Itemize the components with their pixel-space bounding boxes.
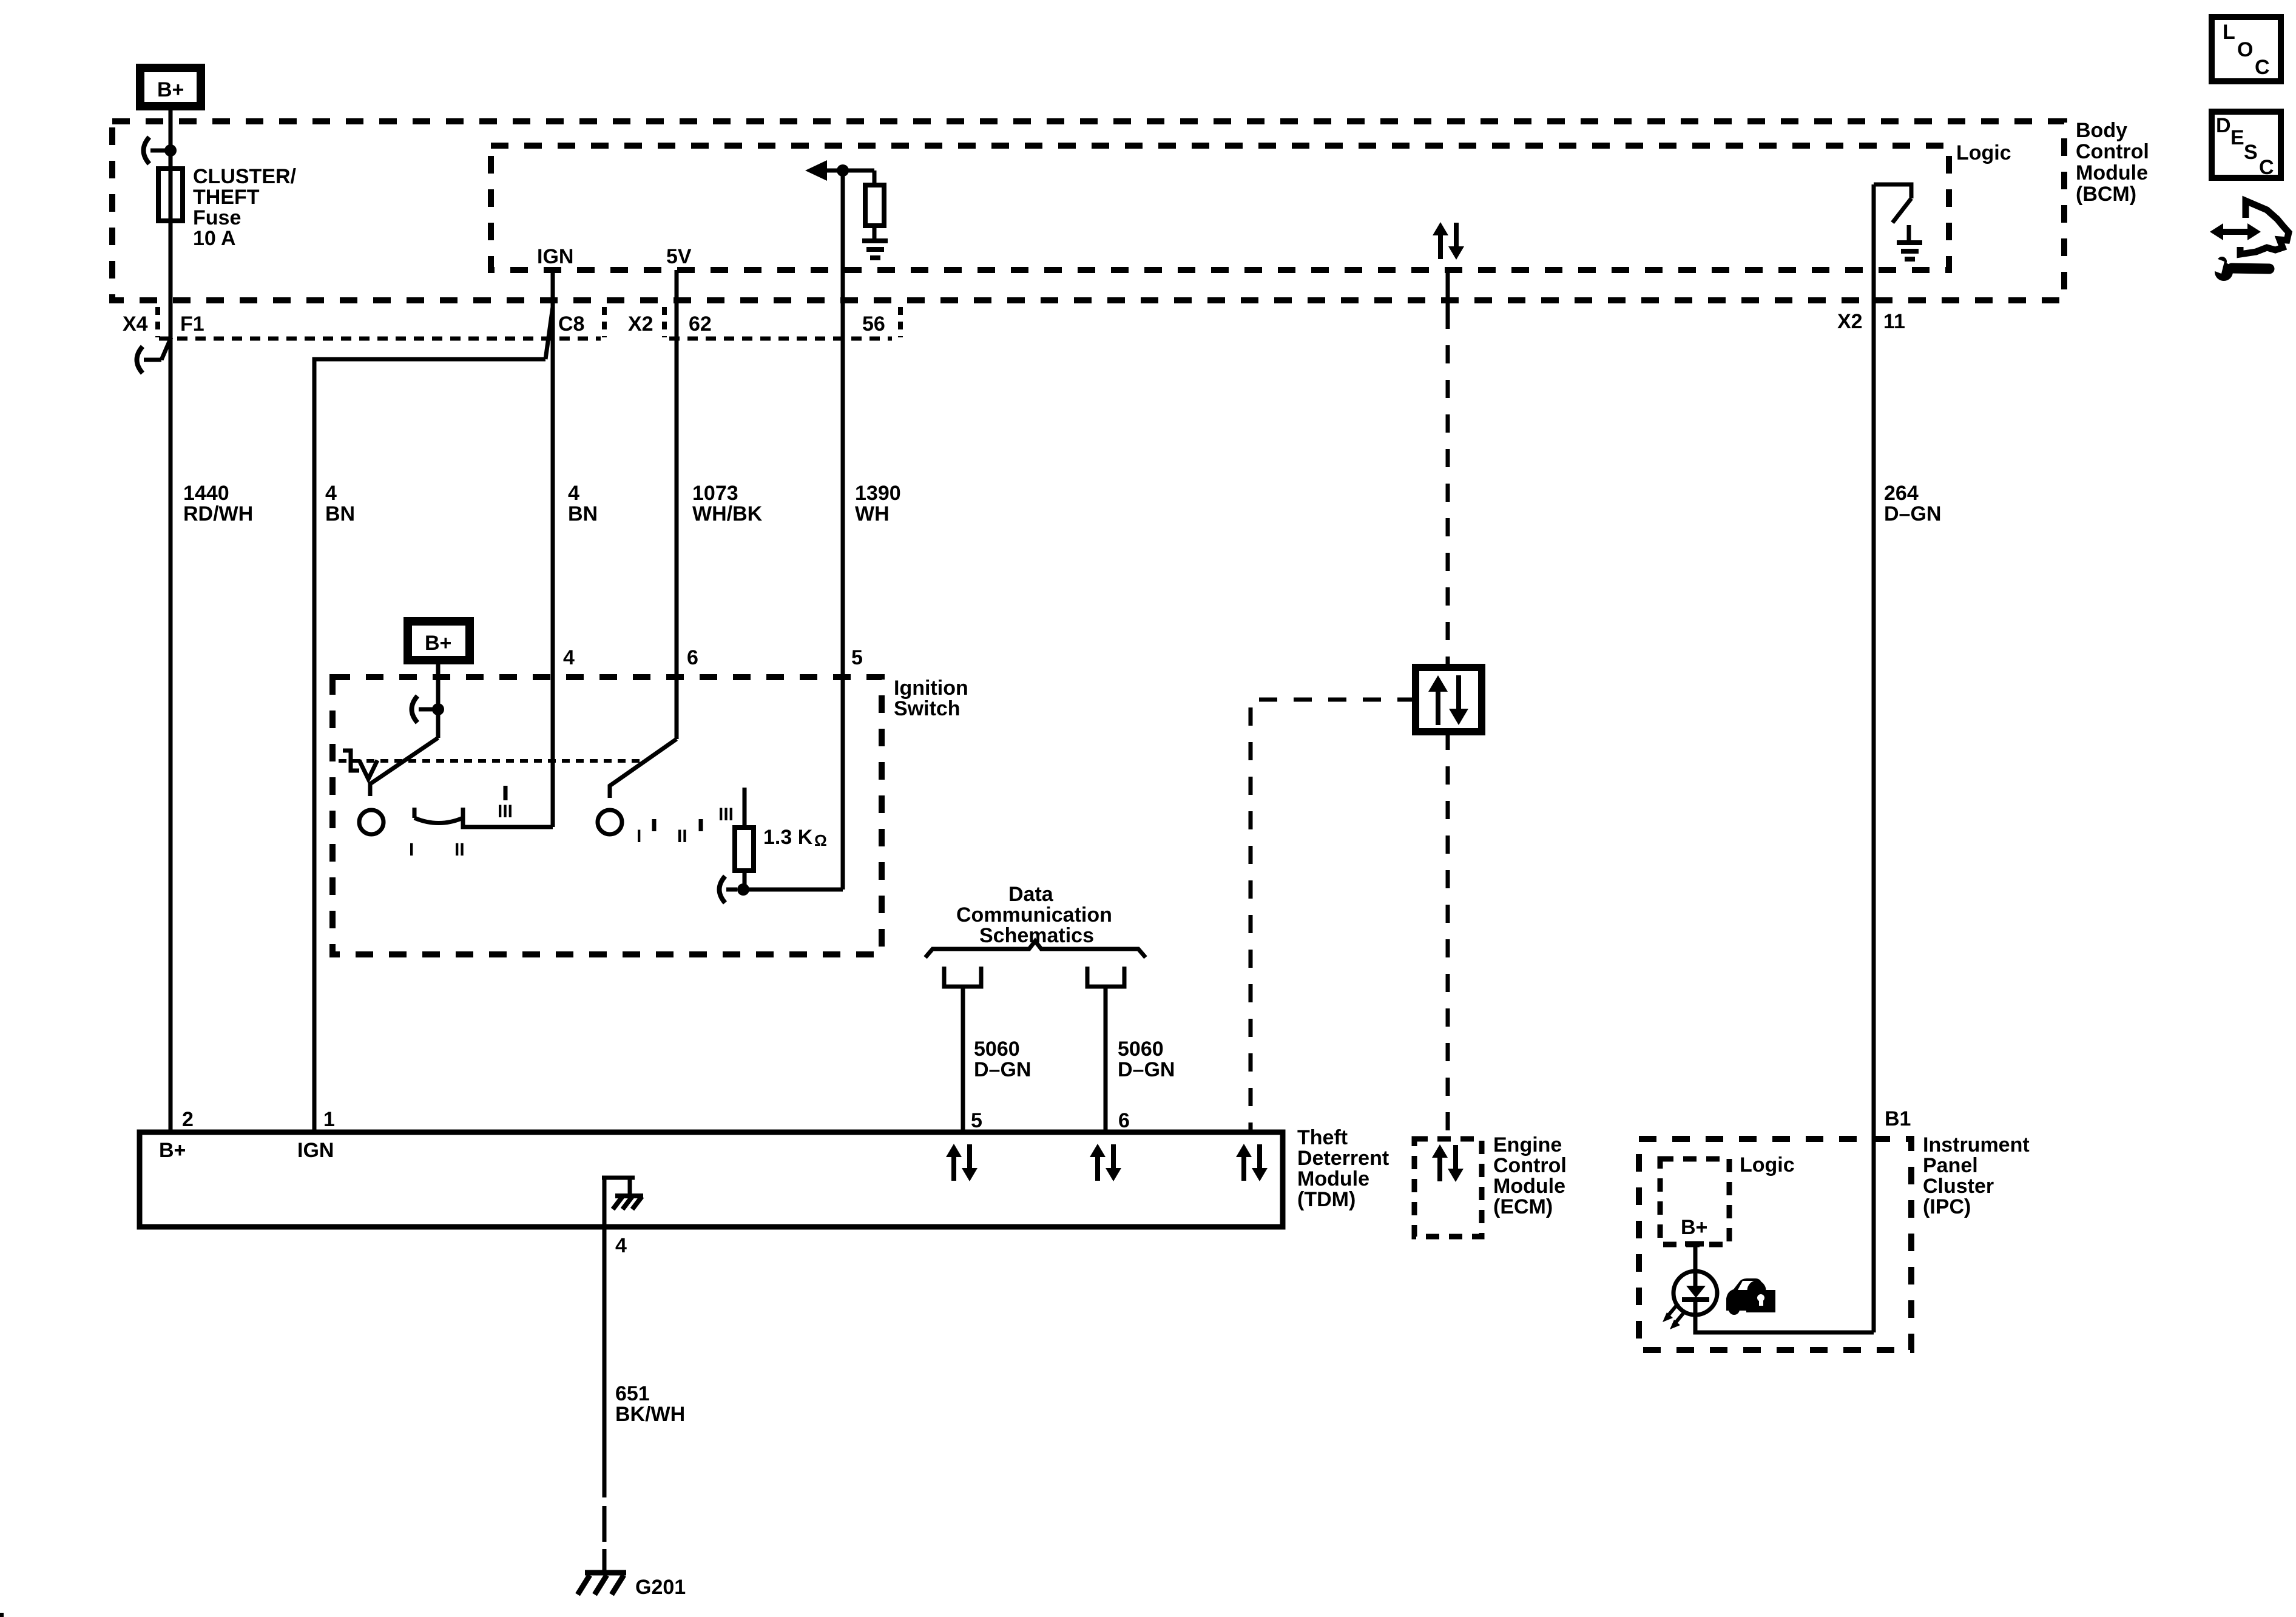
svg-text:L: L [2223, 21, 2235, 44]
connector row bottom dotted line (left segment) [159, 337, 601, 341]
svg-text:1440: 1440 [183, 482, 229, 505]
svg-text:B+: B+ [157, 78, 184, 101]
svg-text:Logic: Logic [1956, 141, 2011, 164]
separator C8|X2 [602, 307, 607, 337]
serial arrows ECM [1432, 1144, 1464, 1182]
svg-text:S: S [2244, 141, 2258, 164]
svg-text:B+: B+ [1681, 1216, 1707, 1239]
svg-text:Control: Control [1493, 1154, 1567, 1177]
svg-text:1073: 1073 [692, 482, 738, 505]
switch 2 contact circle [598, 810, 622, 834]
svg-text:Body: Body [2076, 119, 2127, 142]
position tick I (switch 2) [652, 819, 657, 831]
serial data connector box with arrows [1416, 667, 1482, 732]
label CLUSTER/THEFT Fuse 10 A [193, 165, 297, 250]
svg-text:56: 56 [862, 312, 885, 336]
off-page connector (serial data 6) [1087, 967, 1124, 987]
label Data Communication Schematics [956, 883, 1112, 947]
svg-text:4: 4 [615, 1234, 627, 1257]
svg-text:D–GN: D–GN [1884, 502, 1941, 525]
svg-text:X4: X4 [123, 312, 148, 336]
mechanical linkage dotted line [339, 759, 646, 763]
svg-text:IGN: IGN [537, 245, 573, 268]
svg-text:BK/WH: BK/WH [615, 1403, 685, 1426]
svg-text:BN: BN [325, 502, 355, 525]
svg-text:I: I [409, 840, 414, 860]
svg-text:4: 4 [325, 482, 337, 505]
wire 4 BN from BCM IGN pin down to ignition switch pin 4 [551, 270, 555, 827]
lock position V symbol [359, 760, 377, 779]
wire 4 BN branch to TDM IGN [314, 359, 545, 1130]
svg-text:6: 6 [687, 646, 698, 669]
svg-text:5: 5 [851, 646, 863, 669]
svg-text:O: O [2237, 38, 2253, 61]
Theft Deterrent Module box [140, 1132, 1283, 1227]
resistor (BCM pull-up) [865, 170, 884, 241]
svg-text:(TDM): (TDM) [1297, 1188, 1356, 1211]
label Engine Control Module (ECM) [1493, 1133, 1567, 1218]
serial data line BCM to splice box (dashed) [1446, 311, 1450, 667]
switch 1 contact circle [359, 810, 383, 834]
wire 5060 D-GN right [1104, 987, 1108, 1130]
svg-text:Logic: Logic [1740, 1153, 1795, 1176]
svg-text:Switch: Switch [894, 697, 961, 720]
ignition switch dashed box [333, 677, 882, 954]
label 4 BN (TDM branch) [325, 482, 355, 525]
switch blade 1 (main ignition contact) [370, 738, 438, 796]
fuse clip connector at fuse top [144, 137, 177, 164]
TDM internal ground symbol [602, 1178, 643, 1209]
Instrument Panel Cluster dashed box [1639, 1139, 1911, 1350]
svg-text:10 A: 10 A [193, 227, 236, 250]
svg-text:E: E [2230, 126, 2244, 149]
svg-text:III: III [718, 805, 734, 825]
connector row bottom dotted line (right segment) [669, 337, 892, 341]
Engine Control Module dashed box [1414, 1139, 1482, 1237]
svg-text:(BCM): (BCM) [2076, 183, 2136, 206]
ground G201 [578, 1573, 626, 1595]
wire 1390 WH from BCM to ignition switch pin 5 [841, 170, 845, 890]
svg-text:X2: X2 [1837, 310, 1863, 333]
svg-text:264: 264 [1884, 482, 1919, 505]
label Theft Deterrent Module (TDM) [1297, 1126, 1389, 1211]
wire 1440 RD/WH fuse to TDM B+ [169, 170, 173, 1130]
ground (BCM internal) [862, 241, 888, 258]
svg-text:651: 651 [615, 1382, 650, 1405]
svg-text:IGN: IGN [297, 1139, 334, 1162]
label 5060 D-GN (left) [974, 1038, 1031, 1081]
svg-text:Control: Control [2076, 140, 2149, 163]
serial data line to ECM (dashed) [1446, 732, 1450, 1139]
wire B+ into fuse [169, 110, 173, 170]
svg-text:III: III [498, 802, 513, 822]
inline connector clip on ignition B+ wire [412, 696, 445, 723]
svg-text:6: 6 [1118, 1109, 1130, 1132]
svg-text:2: 2 [182, 1108, 194, 1131]
position tick above III (switch 1) [504, 786, 508, 800]
switch blade 2 (accessory contact) [610, 739, 677, 798]
svg-text:I: I [636, 826, 641, 846]
inline connector clip at resistor bottom [720, 876, 738, 903]
svg-text:G201: G201 [635, 1576, 686, 1599]
node on 1390 wire at arrow [837, 164, 849, 177]
separator X4|F1 [155, 307, 160, 337]
svg-text:Instrument: Instrument [1923, 1133, 2030, 1156]
svg-text:5060: 5060 [1118, 1038, 1164, 1061]
wire 264 D-GN from BCM switch to IPC [1872, 184, 1876, 1332]
label 1.3 K ohm [763, 826, 827, 849]
wire logic to LED [1693, 1244, 1698, 1274]
serial arrows TDM pin 5 [946, 1144, 977, 1181]
label 4 BN (ignition branch) [568, 482, 598, 525]
switch 1 wiper arc to pin 4 [414, 808, 553, 827]
svg-text:4: 4 [568, 482, 579, 505]
BCM driver switch for 264 circuit [1874, 184, 1911, 223]
svg-text:Theft: Theft [1297, 1126, 1348, 1149]
svg-text:Cluster: Cluster [1923, 1175, 1994, 1198]
separator after 56 [898, 307, 903, 337]
svg-text:D–GN: D–GN [974, 1058, 1031, 1081]
svg-text:C: C [2255, 56, 2270, 79]
IPC logic B+ output bar [1685, 1241, 1704, 1247]
ground (BCM driver) [1897, 225, 1922, 259]
svg-text:B1: B1 [1885, 1107, 1911, 1130]
svg-text:Module: Module [1297, 1167, 1369, 1190]
svg-text:4: 4 [563, 646, 575, 669]
svg-text:(IPC): (IPC) [1923, 1195, 1971, 1218]
svg-text:62: 62 [689, 312, 712, 336]
svg-text:WH/BK: WH/BK [692, 502, 763, 525]
svg-text:D: D [2216, 114, 2231, 137]
label 264 D-GN [1884, 482, 1941, 525]
serial arrows TDM serial pin [1236, 1144, 1268, 1181]
BCM internal Logic dashed box [491, 146, 1949, 270]
svg-text:F1: F1 [180, 312, 204, 336]
svg-text:Ignition: Ignition [894, 677, 968, 700]
svg-text:Deterrent: Deterrent [1297, 1147, 1389, 1170]
svg-text:WH: WH [855, 502, 890, 525]
label Body Control Module (BCM) [2076, 119, 2149, 206]
inline connector on wire 1440 below X4/F1 [137, 337, 172, 373]
svg-text:1.3 K: 1.3 K [763, 826, 813, 849]
svg-text:Module: Module [1493, 1175, 1565, 1198]
connector service icon (arrow, terminal, wrench) [2210, 201, 2289, 281]
svg-text:Panel: Panel [1923, 1154, 1978, 1177]
signal arrow to BCM logic (points left) [805, 160, 874, 181]
svg-text:II: II [454, 840, 465, 860]
label 1073 WH/BK [692, 482, 763, 525]
svg-text:Engine: Engine [1493, 1133, 1562, 1156]
svg-text:RD/WH: RD/WH [183, 502, 253, 525]
svg-text:5V: 5V [666, 245, 692, 268]
resistor 1.3 Kohm (ignition key sense) [735, 788, 754, 890]
branch jog of IGN wire through C8 [545, 307, 553, 359]
IPC internal Logic dashed box [1660, 1159, 1729, 1244]
node at resistor bottom [737, 883, 749, 896]
svg-text:1: 1 [323, 1108, 335, 1131]
serial arrows TDM pin 6 [1090, 1144, 1121, 1181]
label 651 BK/WH [615, 1382, 685, 1426]
label Ignition Switch [894, 677, 968, 720]
position tick II (switch 2) [699, 819, 703, 831]
LED emission arrows [1663, 1303, 1686, 1329]
wire 1073 WH/BK from BCM 5V pin to ignition switch pin 6 [675, 270, 679, 739]
brace [925, 941, 1146, 957]
wire from ignition B+ down to switch blade [436, 664, 441, 738]
Body Control Module (BCM) outer dashed box [112, 121, 2064, 300]
svg-text:BN: BN [568, 502, 598, 525]
off-page connector (serial data 5) [944, 967, 981, 987]
svg-text:CLUSTER/: CLUSTER/ [193, 165, 297, 188]
lock position step symbol [343, 751, 359, 771]
wire 651 BK/WH TDM ground [603, 1178, 607, 1497]
svg-text:THEFT: THEFT [193, 186, 260, 209]
DESC reference box [2212, 112, 2281, 179]
svg-text:Communication: Communication [956, 903, 1112, 927]
svg-text:D–GN: D–GN [1118, 1058, 1175, 1081]
separator X2|62 [662, 307, 667, 337]
label 1440 RD/WH [183, 482, 253, 525]
wire 5060 D-GN left [961, 987, 965, 1130]
serial data line BCM down (solid stub) [1446, 270, 1450, 311]
svg-text:Module: Module [2076, 161, 2148, 184]
serial data arrows inside BCM [1433, 222, 1464, 260]
svg-text:II: II [677, 826, 687, 846]
LOC reference box [2212, 17, 2281, 81]
power symbol B+ (battery feed, top left) [140, 68, 201, 106]
svg-text:1390: 1390 [855, 482, 901, 505]
svg-text:B+: B+ [159, 1139, 186, 1162]
svg-text:Data: Data [1008, 883, 1054, 906]
power symbol B+ (ignition switch) [408, 621, 470, 660]
label Instrument Panel Cluster (IPC) [1923, 1133, 2030, 1218]
svg-text:5060: 5060 [974, 1038, 1020, 1061]
svg-text:Ω: Ω [814, 831, 827, 849]
svg-text:C8: C8 [558, 312, 584, 336]
label 5060 D-GN (right) [1118, 1038, 1175, 1081]
svg-text:(ECM): (ECM) [1493, 1195, 1553, 1218]
security indicator car with lock icon [1726, 1278, 1775, 1315]
security LED indicator [1673, 1271, 1717, 1315]
wire 651 dashed segment to G201 [603, 1506, 607, 1542]
page corner mark [0, 1613, 4, 1617]
svg-text:X2: X2 [628, 312, 653, 336]
wire LED to B1 pin [1695, 1315, 1874, 1332]
svg-text:5: 5 [971, 1109, 982, 1132]
serial data branch to TDM (dashed) [1251, 700, 1416, 1132]
svg-text:Fuse: Fuse [193, 206, 241, 229]
label 1390 WH [855, 482, 901, 525]
svg-text:C: C [2259, 156, 2274, 179]
svg-text:B+: B+ [425, 632, 451, 655]
wire resistor bottom to pin 5 line [743, 888, 843, 892]
fuse F1 CLUSTER/THEFT 10A [158, 169, 183, 221]
svg-text:11: 11 [1883, 310, 1905, 333]
